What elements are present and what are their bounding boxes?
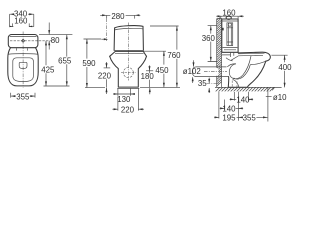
svg-text:220: 220	[98, 71, 112, 80]
centre line	[127, 23, 129, 81]
svg-text:180: 180	[141, 72, 155, 81]
svg-text:400: 400	[278, 63, 292, 72]
svg-text:280: 280	[111, 12, 125, 21]
svg-text:760: 760	[167, 51, 181, 60]
dim 280 left extension dash-dot	[106, 18, 108, 41]
dim 80 vertical	[48, 23, 60, 50]
svg-text:ø102: ø102	[183, 67, 201, 76]
dim 220 bottom	[112, 88, 144, 114]
svg-text:590: 590	[82, 59, 96, 68]
wall hatch	[217, 17, 222, 87]
dim 160 top right	[216, 8, 244, 19]
dim 130 bottom	[113, 88, 135, 104]
dim 140 middle	[220, 104, 243, 113]
cistern side profile	[222, 19, 238, 52]
bowl outer (plan)	[8, 48, 38, 86]
svg-text:80: 80	[51, 36, 60, 45]
bowl rim top edge (plan)	[8, 53, 38, 56]
svg-text:355: 355	[16, 92, 30, 101]
svg-text:220: 220	[121, 105, 135, 114]
outlet pipe pill (dia 102)	[183, 60, 219, 83]
outlet pipe to wall	[219, 67, 229, 77]
svg-text:195: 195	[222, 113, 236, 122]
tank lid inner line	[10, 35, 37, 37]
dim 590	[82, 38, 108, 87]
plan centre dashed horizontal	[10, 40, 53, 42]
floor reference right	[140, 86, 180, 88]
svg-text:140: 140	[236, 96, 250, 105]
dim 450 vertical	[155, 51, 169, 87]
dim 160 line	[9, 17, 33, 28]
dim 340 line	[10, 9, 34, 26]
dim 425 vertical	[41, 41, 55, 86]
bottom extension lines	[219, 92, 249, 121]
extension line bowl front	[44, 85, 70, 87]
svg-text:450: 450	[155, 66, 169, 75]
svg-text:355: 355	[243, 113, 257, 122]
dim 760 vertical	[167, 26, 181, 87]
floor reference left	[85, 87, 105, 89]
cistern interior base	[223, 48, 238, 50]
cistern lid line	[222, 20, 238, 22]
foot bottom	[228, 86, 247, 88]
rim underside slant	[250, 61, 265, 64]
svg-text:425: 425	[41, 65, 55, 74]
foot back edge	[227, 77, 229, 88]
cistern body front view	[114, 26, 143, 50]
svg-text:130: 130	[117, 95, 131, 104]
push button	[226, 16, 231, 19]
cistern bottom line	[114, 49, 143, 51]
water inlet fitting	[222, 28, 224, 31]
seat top profile	[238, 52, 270, 61]
dim 355 bottom	[11, 92, 35, 101]
pedestal base second line	[117, 88, 139, 90]
dim 655 vertical	[58, 35, 72, 86]
cistern top extension for 760	[150, 25, 179, 27]
svg-text:140: 140	[222, 104, 236, 113]
extension line tank top	[39, 34, 72, 36]
floor line	[215, 86, 282, 88]
bowl rim band	[110, 51, 147, 56]
svg-text:360: 360	[202, 34, 216, 43]
dim 35 label	[198, 78, 219, 93]
dim 180 vertical	[141, 65, 155, 94]
fixing hole line + dia 10	[266, 87, 287, 121]
bowl front profile	[247, 61, 265, 87]
flush mechanism	[227, 23, 233, 46]
dim 355 right	[237, 113, 268, 122]
flush bend from cistern	[222, 52, 238, 61]
cistern lid	[115, 26, 143, 28]
dim 360	[202, 26, 217, 62]
outlet cross dashes	[121, 72, 136, 74]
dim 400	[278, 55, 292, 87]
seat hinge ticks	[17, 48, 28, 50]
bowl taper to pedestal	[110, 56, 147, 87]
svg-text:ø10: ø10	[273, 93, 287, 102]
svg-text:655: 655	[58, 56, 72, 65]
outlet dashed circle	[123, 68, 133, 78]
centre cross mark	[22, 39, 25, 42]
seat top extension for 400	[271, 54, 287, 56]
rim top extension for 450	[144, 50, 166, 52]
dim 140 top	[230, 96, 254, 105]
water surface shield shape	[19, 62, 27, 68]
bowl inner / trap curves	[229, 56, 251, 79]
plan centre line vertical	[22, 32, 24, 89]
svg-text:35: 35	[198, 79, 207, 88]
dim 280	[100, 12, 140, 21]
seat underside	[238, 54, 263, 57]
dim 220 left vertical	[98, 62, 112, 94]
svg-text:160: 160	[14, 17, 28, 26]
wall lines	[217, 19, 222, 88]
floor hatch	[216, 87, 275, 91]
bowl opening inner ring (plan)	[13, 58, 34, 82]
dim 195	[214, 113, 236, 122]
hidden vertical outlet dashes	[232, 81, 237, 88]
cistern (plan)	[8, 35, 38, 48]
